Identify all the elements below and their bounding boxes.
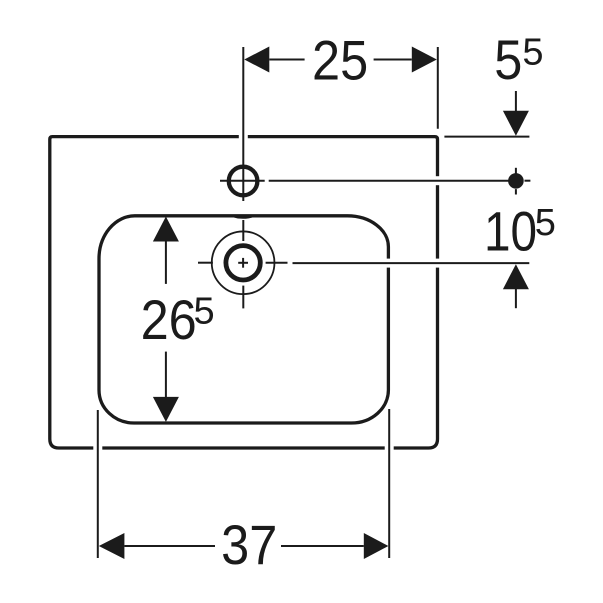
basin rim dip near faucet hole [232,216,254,218]
drain hole outer circle [212,231,275,294]
svg-text:5: 5 [194,291,215,333]
drain crosshair ticks [242,220,244,241]
dot ticks [515,168,517,174]
svg-text:5: 5 [494,30,522,92]
37 right [364,533,389,559]
drain center cross [238,262,248,264]
10.5 arrow tail [515,289,517,309]
svg-text:26: 26 [141,290,197,352]
25 left [244,47,269,73]
ext line 25 left / faucet vertical centerline [242,47,244,201]
thin lines [98,47,531,558]
svg-text:37: 37 [221,515,277,577]
5.5 down [503,111,529,136]
drain level ext line (10.5) [293,262,530,264]
dimension labels [141,30,537,577]
37 dim line [124,545,215,547]
26.5 down [153,397,179,422]
top edge ext line (5.5) [444,136,529,138]
reference dot node [508,173,524,189]
long line to dot [269,180,509,182]
25 right [412,47,437,73]
faucet horizontal centerline [220,180,265,182]
svg-text:25: 25 [312,30,368,92]
26.5 up [153,217,179,242]
white casing gaps where thin lines cross outline [98,130,445,455]
37 left [99,533,125,559]
faucet hole circle [229,167,258,196]
drain hole inner circle [226,246,260,280]
svg-text:5: 5 [535,202,556,244]
tick right of dot [525,180,531,182]
dim line 25 [269,59,304,61]
26.5 dim line [165,241,167,284]
5.5 arrow tail [515,91,517,112]
basin inner outline [99,216,388,423]
ext line 25 right [437,47,439,129]
37 ext lines [97,410,99,558]
arrowheads [99,47,529,560]
svg-text:5: 5 [522,31,543,73]
10.5 up [503,264,529,289]
svg-text:10: 10 [484,200,537,262]
sink outer outline [50,137,438,448]
